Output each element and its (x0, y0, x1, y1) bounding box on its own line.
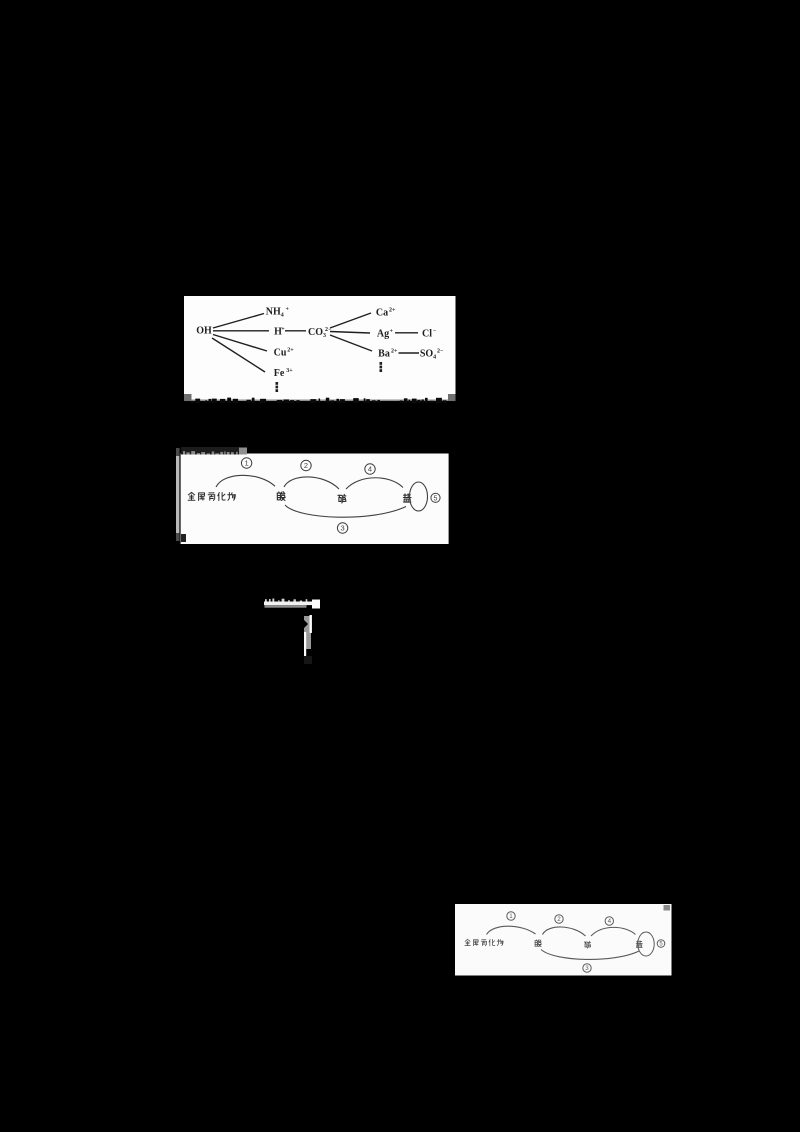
svg-text:Ca: Ca (376, 308, 388, 319)
svg-text:+: + (286, 307, 290, 313)
svg-text:2−: 2− (437, 349, 444, 355)
wire Ag-Cl (395, 332, 418, 334)
svg-text:Ba: Ba (378, 349, 390, 360)
label 盐 (small) (636, 941, 642, 948)
wire CO3-Ba (330, 335, 372, 351)
loop 5 s (638, 932, 654, 956)
marker 2 s (555, 915, 563, 923)
arc 4: base->salt (346, 478, 403, 489)
svg-text:4: 4 (368, 465, 372, 474)
panel: acid/base/salt relation (large) (174, 444, 450, 547)
left margin bar (176, 448, 179, 541)
label 盐 (403, 494, 411, 502)
loop 5 at salt (410, 482, 428, 511)
svg-text:2+: 2+ (391, 349, 398, 355)
label 碱 (338, 494, 346, 503)
wire CO3-Ca (330, 313, 371, 328)
white square (312, 600, 320, 609)
svg-text:OH: OH (196, 326, 212, 337)
arc 1 s (487, 926, 536, 934)
marker 1 (241, 458, 251, 468)
arc 1: oxide->acid (216, 475, 275, 487)
wire OH-Fe (212, 338, 265, 372)
corner mark bottom-right (448, 394, 456, 401)
svg-text:NH4: NH4 (266, 307, 287, 319)
svg-text:1: 1 (509, 913, 513, 920)
svg-text:Cu: Cu (274, 348, 287, 359)
marker 5 (431, 493, 440, 502)
ragged cut text row at panel bottom (190, 401, 194, 403)
svg-text:5: 5 (434, 495, 438, 502)
panel: ion pairing diagram (184, 296, 456, 404)
svg-text:+: + (390, 329, 394, 335)
arc 2: acid->base (284, 477, 339, 489)
svg-text:Fe: Fe (274, 368, 285, 379)
svg-text:2: 2 (557, 916, 561, 923)
marker 4 (365, 464, 375, 474)
marker 1 s (507, 912, 515, 920)
wire Ba-SO4 (399, 352, 420, 354)
corner mark top-right (664, 905, 671, 911)
wire CO3-Ag (330, 332, 370, 334)
vertical remnant (304, 616, 311, 649)
arc 3 s (541, 950, 639, 960)
ellipsis below Fe3+ (276, 382, 279, 385)
svg-text:Ag: Ag (377, 329, 389, 340)
svg-text:Cl: Cl (422, 329, 432, 340)
marker 5 s (657, 940, 665, 948)
svg-text:2: 2 (304, 461, 308, 470)
svg-text:2+: 2+ (389, 308, 396, 314)
marker 3 (337, 523, 347, 533)
label 金属氧化物 (small) (465, 939, 470, 945)
svg-text:+: + (281, 327, 285, 333)
wire OH-NH4 (213, 314, 264, 329)
label 酸 (277, 492, 285, 501)
wire H-CO3 (285, 330, 306, 332)
label 金属氧化物 (188, 492, 195, 500)
svg-text:2+: 2+ (287, 348, 294, 354)
corner mark bottom-left (184, 394, 192, 401)
panel: acid/base/salt relation (small) (455, 904, 672, 976)
svg-text:4: 4 (608, 918, 612, 925)
bottom-left smudge (181, 534, 186, 542)
label 碱 (small) (584, 941, 590, 948)
label 酸 (small) (535, 940, 541, 947)
marker 3 s (583, 964, 591, 972)
svg-text:1: 1 (245, 459, 249, 468)
arc 4 s (591, 927, 636, 936)
svg-text:3: 3 (585, 965, 589, 972)
svg-text:3+: 3+ (286, 368, 293, 374)
wire OH-H (213, 330, 269, 332)
arc 2 s (543, 927, 586, 936)
stray fragment: underline remnant (258, 592, 328, 667)
wire OH-Cu (213, 335, 267, 352)
ellipsis below Ba2+ (380, 362, 383, 365)
svg-text:3: 3 (341, 524, 345, 533)
arc 3: acid->salt (bottom) (285, 505, 406, 517)
marker 2 (301, 460, 311, 470)
svg-text:−: − (433, 329, 437, 335)
marker 4 s (605, 917, 613, 925)
dark smudge top-left (181, 447, 239, 455)
